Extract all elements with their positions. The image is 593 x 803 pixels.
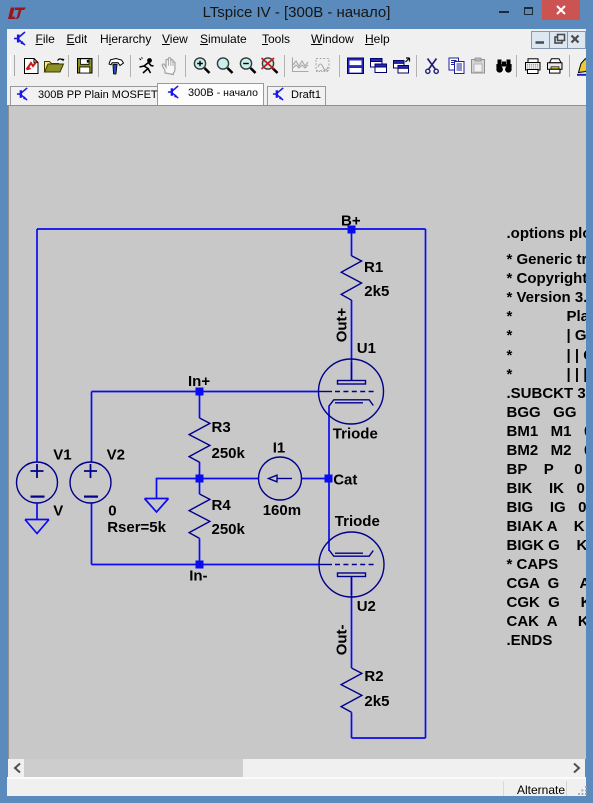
node mid bbox=[196, 475, 204, 483]
svg-text:Out+: Out+ bbox=[333, 307, 350, 342]
wire mid node to I1 bbox=[200, 478, 259, 480]
title bar bbox=[0, 0, 593, 29]
icon zoom box bbox=[217, 58, 232, 73]
triode U2 bbox=[319, 532, 384, 597]
svg-text:R3: R3 bbox=[212, 419, 231, 436]
wire I1 to Cat node bbox=[302, 478, 329, 480]
wire cathode rail U1-Cat-U2 bbox=[328, 406, 330, 552]
icon copy bbox=[449, 58, 464, 74]
node In+ bbox=[196, 388, 204, 396]
svg-text:U2: U2 bbox=[357, 598, 376, 615]
wire V2 bottom lead bbox=[91, 503, 93, 565]
svg-text:Rser=5k: Rser=5k bbox=[107, 519, 166, 536]
wire B+ to R1 bbox=[351, 229, 353, 256]
dark line above schematic bbox=[7, 105, 586, 106]
toolbar bbox=[7, 50, 586, 81]
svg-text:R4: R4 bbox=[212, 497, 232, 514]
svg-text:In-: In- bbox=[189, 568, 207, 585]
wire R1 to U1 plate bbox=[351, 300, 353, 381]
wire R3 to mid node bbox=[199, 462, 201, 494]
svg-text:Out-: Out- bbox=[333, 624, 350, 655]
separators bbox=[69, 55, 570, 77]
svg-text:U1: U1 bbox=[357, 340, 376, 357]
wire top rail B+ bbox=[37, 228, 426, 230]
netlist text block bbox=[507, 224, 593, 243]
icon spice netlist (disabled) bbox=[316, 59, 329, 72]
wire R2 to bottom bbox=[351, 712, 353, 738]
menu bar bbox=[7, 29, 586, 50]
svg-text:V2: V2 bbox=[107, 447, 125, 464]
wire R4 to In- node bbox=[199, 538, 201, 564]
svg-text:0: 0 bbox=[108, 502, 116, 519]
LT logo bbox=[8, 7, 26, 20]
minimize glyph bbox=[499, 11, 509, 13]
icon cascade jump bbox=[394, 58, 410, 73]
wire U2 plate to R2 bbox=[351, 578, 353, 669]
status bar bbox=[7, 777, 586, 796]
resistor R4 bbox=[189, 494, 210, 538]
svg-text:2k5: 2k5 bbox=[364, 693, 389, 710]
svg-text:In+: In+ bbox=[188, 373, 210, 390]
icon pan hand (disabled) bbox=[162, 58, 175, 75]
icon zoom full extents bbox=[262, 58, 278, 73]
icon find binoculars bbox=[496, 60, 511, 73]
app icon bbox=[13, 31, 28, 47]
ground V1 bbox=[25, 520, 49, 534]
triode U1 bbox=[319, 359, 384, 424]
tab 2 active bbox=[157, 83, 264, 106]
wire V2 top lead bbox=[91, 392, 93, 463]
resistor R2 bbox=[341, 668, 362, 712]
svg-text:2k5: 2k5 bbox=[364, 283, 389, 300]
icon tile windows bbox=[348, 58, 364, 74]
wire In+ node to R3 bbox=[199, 392, 201, 419]
icon edit pencil (clipped) bbox=[577, 59, 589, 76]
icon cut scissors bbox=[426, 59, 439, 74]
wire left rail to V1 bbox=[36, 229, 38, 463]
svg-text:250k: 250k bbox=[212, 445, 246, 462]
horizontal scrollbar bbox=[8, 759, 585, 777]
resistor R3 bbox=[189, 418, 210, 462]
resistor R1 bbox=[341, 256, 361, 300]
title text bbox=[0, 4, 593, 21]
node B+ bbox=[348, 226, 356, 234]
svg-text:I1: I1 bbox=[273, 440, 286, 457]
close button bbox=[542, 0, 580, 20]
icon paste (disabled) bbox=[472, 58, 485, 73]
icon new schematic bbox=[25, 59, 39, 74]
node In- bbox=[196, 561, 204, 569]
icon zoom out bbox=[240, 58, 255, 73]
tab 1 inactive bbox=[10, 86, 159, 106]
icon print setup bbox=[548, 59, 563, 73]
icon print bbox=[526, 59, 541, 74]
source V1 bbox=[17, 462, 58, 503]
icon cascade windows bbox=[371, 59, 387, 73]
MDI buttons bbox=[531, 31, 550, 49]
svg-text:V: V bbox=[53, 502, 63, 519]
tab row bbox=[7, 81, 586, 105]
svg-text:250k: 250k bbox=[212, 521, 246, 538]
source V2 bbox=[70, 462, 111, 503]
svg-text:Triode: Triode bbox=[335, 513, 380, 530]
svg-text:Triode: Triode bbox=[333, 426, 378, 443]
gripper bbox=[10, 55, 15, 76]
svg-text:R1: R1 bbox=[364, 259, 383, 276]
wire bottom bbox=[352, 737, 426, 739]
svg-text:R2: R2 bbox=[364, 668, 383, 685]
wire In- bbox=[92, 564, 319, 566]
tab 3 inactive bbox=[267, 86, 326, 106]
current source I1 bbox=[259, 457, 302, 500]
schematic area bbox=[8, 106, 586, 759]
wire V1 bottom lead bbox=[36, 503, 38, 520]
icon control panel hammer bbox=[109, 59, 124, 75]
icon open folder bbox=[45, 59, 65, 73]
ground mid bbox=[145, 499, 169, 513]
wire In+ bbox=[92, 391, 319, 393]
svg-text:160m: 160m bbox=[263, 502, 301, 519]
svg-text:B+: B+ bbox=[341, 212, 361, 229]
wire right rail bbox=[425, 229, 427, 738]
maximize glyph bbox=[524, 7, 533, 15]
icon save floppy bbox=[78, 59, 93, 74]
wire mid node to ground stub bbox=[157, 479, 200, 499]
svg-text:Cat: Cat bbox=[333, 471, 357, 488]
svg-text:V1: V1 bbox=[53, 447, 71, 464]
icon run simulate man bbox=[140, 58, 154, 74]
node Cat bbox=[325, 475, 333, 483]
icon zoom in bbox=[194, 58, 209, 73]
icon waveform (disabled) bbox=[293, 58, 309, 72]
